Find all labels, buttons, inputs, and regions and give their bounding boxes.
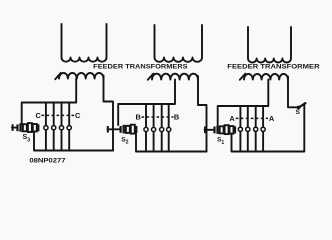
wire unit1 — [45, 103, 47, 151]
winding W3 lead-in — [240, 74, 246, 80]
plug lead unit1 — [12, 127, 17, 129]
dashed gang line B-B — [142, 116, 174, 118]
terminal circle unit1 — [44, 126, 48, 130]
dashed gang line A-A — [236, 117, 268, 119]
switch S pivot dot — [297, 106, 301, 110]
svg-text:S: S — [296, 109, 301, 116]
svg-text:FEEDER TRANSFORMER: FEEDER TRANSFORMER — [227, 63, 319, 70]
wire unit1 bottom bus — [34, 133, 113, 151]
wire unit2 — [145, 104, 147, 152]
terminal circle unit3 — [254, 127, 258, 131]
terminal circle unit3 — [261, 127, 265, 131]
terminal circle unit1 — [59, 126, 63, 130]
terminal circle unit2 — [144, 127, 148, 131]
terminal circle unit2 — [167, 127, 171, 131]
wire unit1 — [53, 103, 55, 151]
transformer T1 primary — [62, 24, 107, 62]
svg-text:A: A — [269, 114, 275, 123]
wire unit3 — [247, 106, 249, 152]
terminal circle unit3 — [238, 127, 242, 131]
winding W1 lead-in — [55, 73, 61, 79]
wire unit3 — [239, 106, 241, 152]
switch S terminal — [304, 102, 306, 104]
wire link W1 right to unit2 input — [104, 76, 114, 151]
transformer T3 primary — [248, 27, 291, 63]
winding W2 lead-in — [148, 74, 154, 80]
winding W2 secondary — [152, 74, 198, 80]
svg-text:C: C — [36, 111, 42, 120]
wire unit2 — [153, 104, 155, 152]
plug S2 — [107, 125, 125, 134]
wire link W2 right to unit3 input — [198, 76, 207, 152]
svg-text:A: A — [229, 114, 235, 123]
unit3 box top edge and tap — [218, 80, 269, 125]
svg-text:C: C — [75, 111, 81, 120]
plug S1 — [204, 125, 219, 134]
winding W1 secondary — [59, 73, 104, 79]
wire unit2 — [168, 104, 170, 152]
terminal circle unit2 — [160, 127, 164, 131]
unit1 box top edge and tap — [22, 79, 76, 125]
wire unit1 — [61, 103, 63, 151]
terminal circle unit2 — [152, 127, 156, 131]
plug lead unit3 — [205, 129, 215, 131]
terminal circle unit3 — [246, 127, 250, 131]
unit2 box top edge and tap — [118, 80, 175, 126]
wire link W3 right to switch S — [288, 77, 298, 108]
plug S3 — [12, 123, 22, 132]
svg-text:B: B — [136, 113, 141, 122]
svg-text:B: B — [174, 113, 179, 122]
winding W3 secondary — [244, 74, 288, 80]
wire unit3 — [255, 106, 257, 152]
switch S blade — [299, 103, 306, 107]
wire unit1 — [68, 103, 70, 151]
wire unit2 bottom bus — [136, 134, 207, 152]
terminal circle unit1 — [52, 126, 56, 130]
wire unit2 — [161, 104, 163, 152]
wire unit3 — [262, 106, 264, 152]
wire unit3 bottom bus — [232, 104, 305, 152]
svg-text:FEEDER TRANSFORMERS: FEEDER TRANSFORMERS — [93, 63, 188, 70]
transformer T2 primary — [155, 25, 203, 62]
terminal circle unit1 — [67, 126, 71, 130]
svg-text:08NP0277: 08NP0277 — [29, 158, 66, 165]
dashed gang line C-C — [42, 114, 76, 116]
plug lead unit2 — [108, 128, 121, 130]
